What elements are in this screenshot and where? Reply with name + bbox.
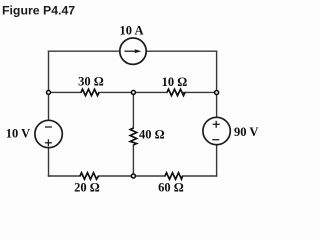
svg-text:10 V: 10 V: [6, 127, 30, 141]
wire middle rung left segment: [49, 91, 82, 93]
svg-text:Figure P4.47: Figure P4.47: [2, 3, 75, 17]
resistor R 60ohm zigzag: [165, 173, 183, 179]
wire middle rung right segment: [184, 91, 217, 93]
V1 minus sign: [45, 126, 52, 128]
resistor R 20ohm zigzag: [80, 173, 99, 179]
V2 plus sign: [213, 123, 220, 125]
node left middle: [47, 90, 51, 94]
resistor R 40ohm zigzag (vertical): [130, 128, 136, 145]
voltage source V2 90V circle: [203, 117, 230, 144]
wire middle vertical upper segment: [132, 92, 134, 128]
current source I1 10A circle: [120, 38, 146, 64]
current source arrow: [125, 50, 136, 52]
node center middle: [131, 90, 135, 94]
wire bottom rail middle segment: [99, 175, 166, 177]
V2 minus sign: [212, 139, 219, 141]
wire middle vertical lower segment: [132, 145, 134, 176]
svg-text:10 Ω: 10 Ω: [162, 75, 188, 89]
wire left rail: [48, 51, 50, 176]
svg-text:20 Ω: 20 Ω: [74, 181, 100, 195]
wire middle rung center segment: [99, 91, 167, 93]
svg-text:40 Ω: 40 Ω: [139, 127, 165, 141]
svg-text:30 Ω: 30 Ω: [78, 75, 104, 89]
voltage source V1 10V circle: [35, 120, 62, 147]
svg-text:90 V: 90 V: [234, 125, 258, 139]
resistor R 10ohm zigzag: [167, 89, 185, 95]
resistor R 30ohm zigzag: [81, 89, 99, 95]
wire bottom rail left segment: [49, 175, 81, 177]
wire right rail: [216, 51, 218, 176]
svg-text:60 Ω: 60 Ω: [158, 181, 184, 195]
V1 plus sign: [45, 142, 52, 144]
wire top rail: [49, 50, 217, 52]
wire bottom rail right segment: [183, 175, 217, 177]
node right middle: [215, 91, 219, 95]
node bottom center: [131, 174, 135, 178]
svg-text:10 A: 10 A: [120, 24, 144, 38]
